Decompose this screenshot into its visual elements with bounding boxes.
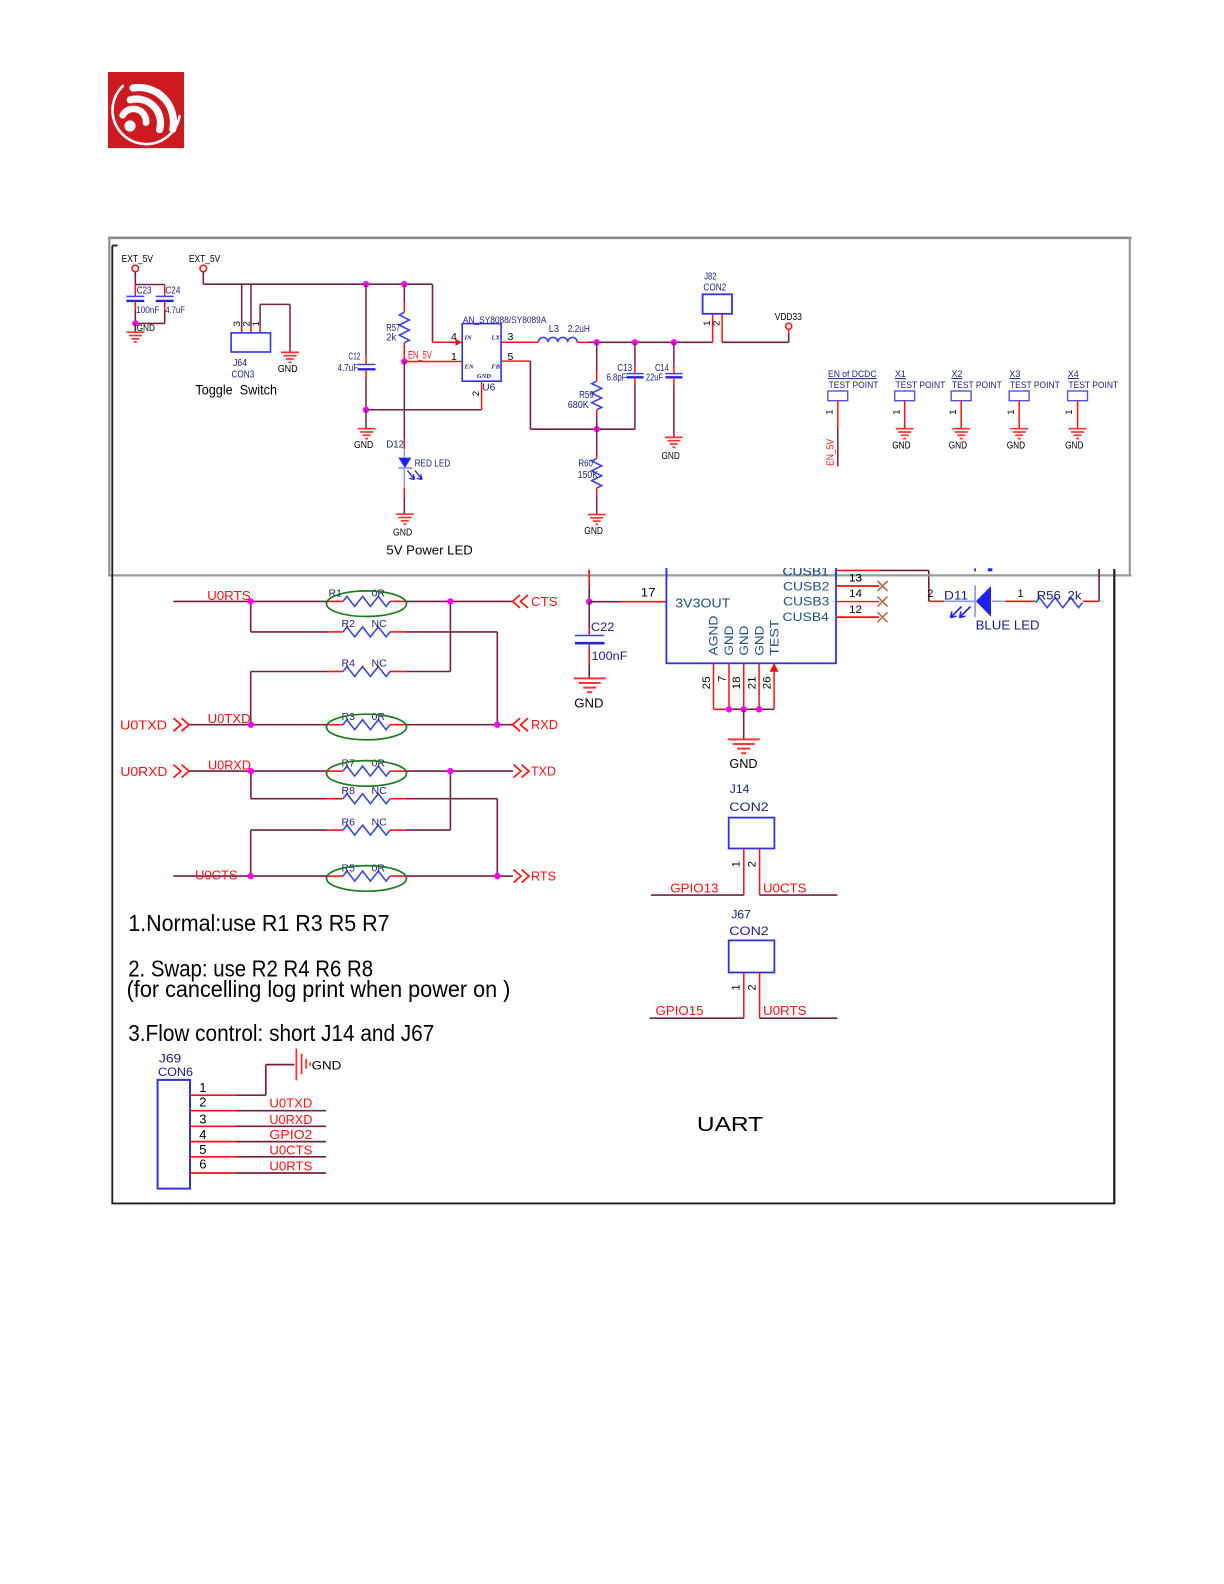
svg-text:2: 2 — [927, 588, 933, 600]
svg-text:3: 3 — [199, 1112, 206, 1127]
svg-text:1: 1 — [731, 861, 743, 867]
svg-text:U0CTS: U0CTS — [763, 880, 807, 895]
svg-text:J14: J14 — [730, 782, 750, 796]
svg-text:FB: FB — [491, 364, 500, 371]
svg-text:RTS: RTS — [531, 869, 556, 884]
svg-text:D12: D12 — [386, 439, 404, 450]
svg-text:LX: LX — [490, 334, 500, 341]
svg-text:CUSB3: CUSB3 — [783, 595, 830, 609]
svg-text:GND: GND — [737, 625, 751, 655]
svg-text:12: 12 — [849, 604, 862, 616]
svg-text:EN_5V: EN_5V — [408, 350, 432, 362]
svg-text:CON2: CON2 — [703, 283, 726, 294]
svg-text:0R: 0R — [372, 862, 386, 874]
svg-text:GND: GND — [729, 756, 757, 771]
svg-text:GND: GND — [662, 451, 680, 462]
svg-text:26: 26 — [761, 676, 773, 689]
svg-text:RED LED: RED LED — [415, 459, 451, 470]
svg-text:1: 1 — [1006, 409, 1017, 414]
svg-text:J64: J64 — [233, 358, 247, 369]
svg-text:GND: GND — [752, 625, 766, 655]
svg-text:14: 14 — [849, 588, 862, 600]
svg-text:R56: R56 — [1037, 588, 1062, 602]
svg-text:1: 1 — [824, 409, 835, 414]
svg-text:1: 1 — [251, 321, 262, 326]
svg-text:150K: 150K — [578, 470, 598, 481]
svg-text:4: 4 — [199, 1127, 206, 1142]
svg-text:6.8pF: 6.8pF — [607, 373, 627, 384]
svg-text:RXD: RXD — [531, 717, 558, 732]
svg-text:13: 13 — [849, 573, 862, 585]
svg-text:CON2: CON2 — [729, 800, 769, 814]
svg-text:25: 25 — [701, 676, 713, 689]
svg-text:U0CTS: U0CTS — [269, 1143, 312, 1157]
svg-text:GND: GND — [892, 440, 910, 451]
svg-text:GND: GND — [477, 373, 491, 380]
svg-text:2.2uH: 2.2uH — [568, 324, 590, 335]
svg-text:U0CTS: U0CTS — [195, 868, 238, 883]
svg-text:R8: R8 — [342, 785, 356, 797]
svg-text:GND: GND — [354, 440, 373, 451]
svg-text:4.7uF: 4.7uF — [338, 363, 359, 374]
svg-text:L3: L3 — [549, 324, 560, 335]
svg-text:BLUE LED: BLUE LED — [976, 619, 1040, 633]
svg-text:3V3OUT: 3V3OUT — [675, 596, 730, 610]
svg-text:21: 21 — [746, 676, 758, 689]
svg-text:6: 6 — [199, 1157, 206, 1172]
svg-text:U0RTS: U0RTS — [763, 1003, 807, 1018]
svg-text:4.7uF: 4.7uF — [165, 305, 185, 316]
svg-text:CON3: CON3 — [232, 369, 255, 380]
svg-text:EXT_5V: EXT_5V — [189, 254, 221, 265]
svg-text:CUSB4: CUSB4 — [783, 610, 830, 624]
svg-text:U0TXD: U0TXD — [208, 711, 251, 726]
svg-text:U0RTS: U0RTS — [207, 588, 251, 603]
svg-text:TEST POINT: TEST POINT — [952, 380, 1002, 391]
svg-text:7: 7 — [716, 676, 728, 683]
svg-text:VDD33: VDD33 — [775, 312, 803, 323]
svg-text:GND: GND — [949, 440, 967, 451]
svg-text:GND: GND — [393, 528, 412, 539]
svg-text:C23: C23 — [137, 285, 152, 296]
svg-text:C22: C22 — [591, 620, 615, 634]
svg-text:GND: GND — [1007, 440, 1025, 451]
svg-text:100nF: 100nF — [592, 649, 628, 663]
svg-text:TXD: TXD — [531, 764, 556, 779]
svg-text:J67: J67 — [731, 908, 751, 922]
svg-text:0R: 0R — [372, 588, 386, 600]
svg-text:EXT_5V: EXT_5V — [122, 254, 154, 265]
svg-text:2: 2 — [712, 321, 723, 326]
svg-text:GPIO15: GPIO15 — [656, 1003, 704, 1018]
svg-text:CON6: CON6 — [158, 1065, 193, 1079]
svg-text:U0TXD: U0TXD — [120, 718, 167, 733]
svg-text:C12: C12 — [348, 351, 360, 362]
svg-text:2: 2 — [199, 1095, 206, 1110]
svg-text:17: 17 — [641, 586, 656, 600]
svg-text:(for cancelling log print when: (for cancelling log print when power on … — [127, 976, 511, 1002]
svg-text:0R: 0R — [372, 757, 386, 769]
svg-text:D11: D11 — [944, 588, 969, 602]
svg-text:TEST POINT: TEST POINT — [829, 380, 879, 391]
svg-text:CON2: CON2 — [729, 924, 769, 938]
svg-text:AGND: AGND — [707, 615, 721, 655]
svg-text:U0RTS: U0RTS — [269, 1160, 312, 1174]
svg-text:100nF: 100nF — [136, 305, 160, 316]
svg-text:22uF: 22uF — [646, 373, 663, 384]
svg-text:GPIO13: GPIO13 — [670, 880, 718, 895]
svg-text:2: 2 — [746, 861, 758, 867]
svg-text:NC: NC — [372, 816, 388, 828]
svg-text:U0RXD: U0RXD — [208, 757, 251, 772]
svg-text:18: 18 — [731, 676, 743, 689]
svg-text:1: 1 — [891, 409, 902, 414]
svg-text:U0RXD: U0RXD — [269, 1113, 312, 1127]
svg-text:NC: NC — [372, 618, 388, 630]
svg-text:1: 1 — [948, 409, 959, 414]
svg-text:EN_5V: EN_5V — [826, 439, 837, 466]
svg-text:R60: R60 — [578, 459, 593, 470]
svg-text:J82: J82 — [704, 272, 717, 283]
svg-text:TEST: TEST — [767, 619, 781, 656]
svg-text:5: 5 — [199, 1142, 206, 1157]
svg-text:1: 1 — [731, 984, 743, 990]
svg-text:EN: EN — [464, 364, 474, 371]
svg-text:1: 1 — [1064, 409, 1075, 414]
svg-text:NC: NC — [372, 658, 388, 670]
svg-text:GND: GND — [1065, 440, 1083, 451]
svg-text:2k: 2k — [386, 333, 397, 344]
svg-text:GND: GND — [584, 526, 603, 537]
svg-text:TEST POINT: TEST POINT — [896, 380, 946, 391]
svg-text:R6: R6 — [342, 816, 356, 828]
svg-text:3: 3 — [508, 331, 514, 343]
svg-text:TEST POINT: TEST POINT — [1010, 380, 1060, 391]
svg-text:C24: C24 — [165, 285, 180, 296]
svg-text:R2: R2 — [342, 618, 356, 630]
svg-text:1.Normal:use R1 R3 R5 R7: 1.Normal:use R1 R3 R5 R7 — [128, 910, 389, 936]
svg-text:TEST POINT: TEST POINT — [1068, 380, 1118, 391]
svg-text:Toggle Switch: Toggle Switch — [195, 381, 277, 397]
svg-text:GND: GND — [278, 364, 298, 375]
svg-text:1: 1 — [1018, 588, 1024, 600]
svg-text:2k: 2k — [1068, 588, 1083, 602]
svg-text:UART: UART — [697, 1114, 763, 1136]
svg-text:2: 2 — [471, 391, 482, 396]
svg-text:R4: R4 — [342, 658, 356, 670]
svg-text:3.Flow control: short J14 and: 3.Flow control: short J14 and J67 — [128, 1020, 434, 1046]
svg-text:IN: IN — [464, 334, 473, 341]
svg-text:U6: U6 — [482, 382, 495, 393]
svg-text:CTS: CTS — [531, 594, 558, 609]
svg-text:1: 1 — [199, 1080, 206, 1095]
svg-text:GND: GND — [312, 1059, 342, 1073]
svg-text:GPIO2: GPIO2 — [269, 1128, 312, 1142]
svg-text:U0TXD: U0TXD — [269, 1096, 312, 1110]
svg-text:0R: 0R — [372, 711, 386, 723]
svg-text:1: 1 — [451, 351, 457, 363]
svg-text:CUSB2: CUSB2 — [783, 580, 830, 594]
svg-text:J69: J69 — [159, 1052, 182, 1066]
svg-text:GND: GND — [722, 625, 736, 655]
svg-text:2: 2 — [746, 984, 758, 990]
svg-text:680K: 680K — [568, 400, 589, 411]
svg-text:5V Power LED: 5V Power LED — [386, 542, 472, 557]
svg-text:GND: GND — [574, 696, 603, 711]
svg-text:U0RXD: U0RXD — [120, 764, 167, 779]
